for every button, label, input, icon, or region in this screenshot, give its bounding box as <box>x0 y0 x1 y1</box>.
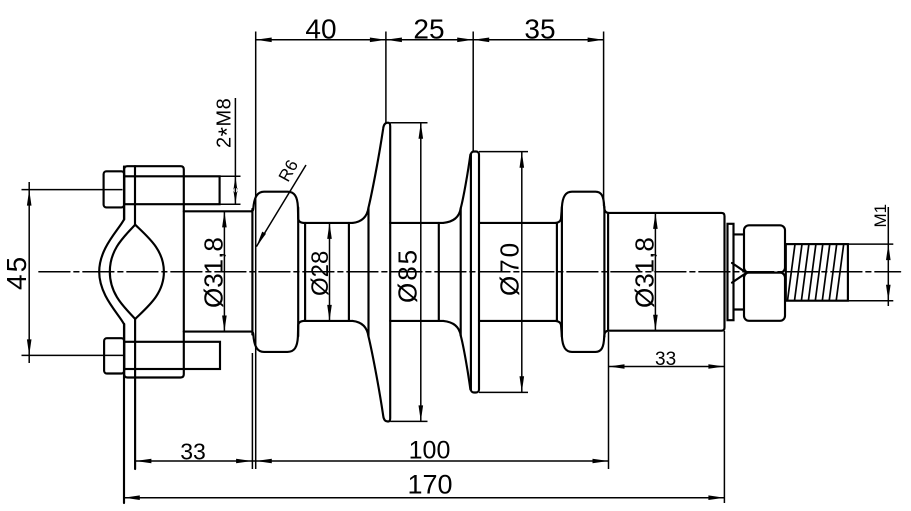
Ø85 arrows <box>419 123 424 422</box>
bulge 2 right tangent line <box>603 207 605 337</box>
arrows at 473.2 <box>457 38 489 43</box>
bell 2 fillet silhouette line <box>460 208 462 335</box>
top dim extension at bulge2 <box>603 32 605 207</box>
nut chamfer V <box>732 263 747 283</box>
bottom dim line 170 <box>124 497 725 499</box>
neck 1 (Ø28) top edge <box>303 222 352 224</box>
bell 2 (Ø70) slants and fillets <box>443 155 470 390</box>
centerline <box>39 271 901 273</box>
arrow 40 left <box>256 38 272 43</box>
svg-text:35: 35 <box>524 14 555 45</box>
bottom ext right end face x=724.4 <box>723 331 725 503</box>
bulge 2 left fillet silhouette <box>556 223 558 321</box>
left shaft bottom edge <box>184 331 252 333</box>
Ø70 arrows <box>520 152 525 393</box>
2xM8 arrows <box>233 176 238 204</box>
Ø31.8 right dim line <box>654 213 656 331</box>
bell 2 neck end face line <box>438 223 440 321</box>
R6 arrowhead <box>256 232 266 247</box>
arrow 35 right <box>588 38 604 43</box>
33 left arrows <box>135 459 252 464</box>
svg-text:40: 40 <box>305 14 336 45</box>
clamp strap left edge + outer arc + tail (extends to 170 dim) <box>99 167 124 504</box>
collar bottom edge <box>479 320 556 322</box>
bell 1 fillet silhouette line <box>367 208 369 337</box>
bolt head bottom <box>104 338 124 373</box>
right shaft end face (left) <box>607 213 609 331</box>
bottom ext at x=608.5 <box>608 332 610 469</box>
top dim extension at bell1 <box>385 32 387 123</box>
M1 extension bottom <box>849 300 893 302</box>
bolt shank top <box>124 176 220 204</box>
bell 2 rim <box>471 152 479 393</box>
M1 arrows <box>886 244 891 301</box>
bulge 1 right tangent line <box>297 208 299 337</box>
svg-text:Ø31,8: Ø31,8 <box>199 237 229 308</box>
svg-text:M1: M1 <box>871 204 890 228</box>
svg-text:170: 170 <box>407 470 452 500</box>
170 arrows <box>124 495 725 500</box>
stud thread hatch <box>788 244 844 301</box>
bulge 1 left end face <box>251 209 253 335</box>
clamp strap right edge lower + tail (extends to 33 dim) <box>134 319 136 469</box>
45 bottom extension / bolt centerline <box>22 354 124 356</box>
clamp eye right arc <box>135 225 164 319</box>
svg-text:Ø85: Ø85 <box>393 248 423 303</box>
bell 1 (Ø85) outline <box>353 123 391 422</box>
Ø70 extension top <box>479 151 528 153</box>
right shaft Ø31.8 <box>608 213 724 331</box>
svg-text:Ø31,8: Ø31,8 <box>630 237 660 308</box>
arrows at 385.9 <box>370 38 402 43</box>
threaded stud <box>786 244 848 301</box>
clamp plate <box>124 166 184 377</box>
45 top extension / bolt centerline <box>22 189 123 191</box>
clamp strap right edge upper <box>134 166 136 224</box>
svg-text:33: 33 <box>655 349 676 370</box>
neck 1 bottom edge <box>303 320 352 322</box>
svg-text:100: 100 <box>409 437 451 465</box>
M1 extension top <box>849 243 893 245</box>
bulge 1 outline <box>252 192 304 352</box>
right 33 dim line <box>609 366 725 368</box>
bolt head top <box>104 171 125 207</box>
Ø28 arrows <box>327 223 332 321</box>
clamp eye left arc <box>110 225 135 319</box>
Ø70 dim line <box>521 152 523 393</box>
45 dim line <box>28 182 30 363</box>
hex nut top half <box>744 225 785 272</box>
100 arrows <box>256 459 609 464</box>
washer <box>728 224 734 320</box>
small cylinder <box>734 234 745 309</box>
svg-text:25: 25 <box>413 14 444 45</box>
svg-text:Ø28: Ø28 <box>307 251 334 296</box>
hex nut bottom half <box>744 273 785 321</box>
top dimension line 40/25/35 <box>256 39 604 41</box>
bolt shank bottom <box>124 342 220 369</box>
svg-text:45: 45 <box>1 255 32 290</box>
svg-text:Ø70: Ø70 <box>495 241 525 296</box>
M1 dim line <box>887 207 889 306</box>
45 arrows <box>27 190 32 356</box>
neck 2 top edge <box>390 222 443 224</box>
Ø28 dim line <box>329 223 331 321</box>
collar top edge <box>479 222 556 224</box>
Ø85 extension bottom <box>390 420 427 422</box>
Ø70 extension bottom <box>479 391 528 393</box>
bulge 2 left tangent line <box>561 207 563 337</box>
right 33 arrows <box>609 364 725 369</box>
bottom ext at shaft end x=252.4 <box>251 353 253 469</box>
2xM8 leader line <box>234 98 236 204</box>
neck 2 bottom edge <box>390 320 443 322</box>
Ø31.8 right arrows <box>653 213 658 331</box>
bulge 2 outline <box>556 192 609 352</box>
left shaft Ø31.8 top edge <box>184 210 252 212</box>
Ø85 dim line <box>420 123 422 422</box>
top dim extension line at x=255.7 (passes through part) <box>255 32 257 470</box>
bell 1 neck end face line <box>348 223 350 321</box>
2xM8 extension bottom <box>220 203 241 205</box>
2xM8 extension top <box>220 175 241 177</box>
Ø85 extension top <box>390 122 427 124</box>
top dim extension at bell2 <box>472 32 474 152</box>
R6 leader line <box>256 165 306 247</box>
Ø31.8 left arrows <box>222 211 227 331</box>
bulge 1 right fillet silhouette <box>304 223 306 321</box>
Ø31.8 left dim line <box>223 211 225 331</box>
svg-text:33: 33 <box>180 439 206 465</box>
bottom dim line 33/100 <box>135 460 608 462</box>
